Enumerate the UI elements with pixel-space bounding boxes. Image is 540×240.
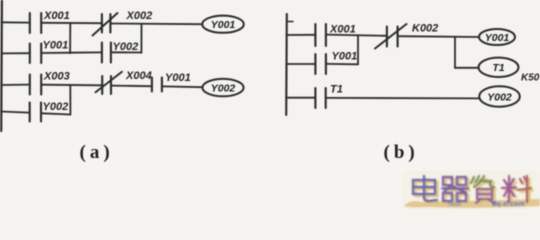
svg-text:dq-zl.com: dq-zl.com	[492, 201, 525, 208]
svg-text:Y001: Y001	[211, 19, 236, 31]
svg-text:X002: X002	[126, 10, 153, 22]
svg-text:X001: X001	[43, 10, 70, 22]
svg-text:Y001: Y001	[332, 51, 358, 63]
svg-text:Y002: Y002	[487, 91, 512, 103]
svg-text:Y002: Y002	[211, 83, 236, 95]
svg-text:Y002: Y002	[43, 101, 69, 113]
svg-text:X003: X003	[43, 71, 70, 83]
svg-text:Y001: Y001	[485, 32, 510, 44]
svg-text:K002: K002	[412, 23, 438, 35]
svg-text:Y002: Y002	[113, 41, 139, 53]
svg-text:X001: X001	[329, 24, 356, 36]
svg-text:X004: X004	[125, 70, 152, 82]
svg-text:T1: T1	[492, 62, 504, 74]
svg-text:(b): (b)	[384, 142, 419, 163]
svg-text:(a): (a)	[80, 142, 114, 163]
svg-text:Y001: Y001	[43, 40, 69, 52]
svg-text:T1: T1	[330, 84, 343, 96]
svg-text:hkdb: hkdb	[448, 202, 462, 208]
svg-text:Y001: Y001	[165, 72, 191, 84]
svg-text:K50: K50	[521, 73, 540, 84]
